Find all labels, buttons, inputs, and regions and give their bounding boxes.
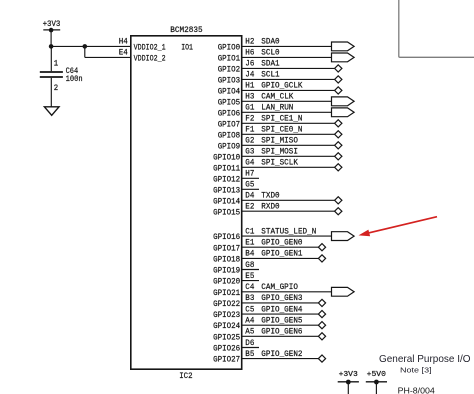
svg-text:A4: A4 — [245, 316, 254, 326]
svg-text:GPIO22: GPIO22 — [213, 299, 240, 309]
svg-text:GPIO3: GPIO3 — [218, 75, 241, 85]
svg-text:GPIO_GEN1: GPIO_GEN1 — [261, 249, 302, 259]
svg-text:VDDIO2_2: VDDIO2_2 — [134, 54, 166, 64]
svg-text:GPIO18: GPIO18 — [213, 254, 240, 264]
svg-text:SCL1: SCL1 — [261, 70, 279, 80]
svg-text:GPIO_GEN6: GPIO_GEN6 — [261, 327, 302, 337]
svg-text:G3: G3 — [245, 147, 254, 157]
svg-text:H4: H4 — [119, 37, 128, 47]
svg-text:GPIO_GEN2: GPIO_GEN2 — [261, 349, 302, 359]
svg-text:C5: C5 — [245, 304, 254, 314]
svg-text:D4: D4 — [245, 191, 254, 201]
svg-text:H7: H7 — [245, 169, 254, 179]
svg-text:D6: D6 — [245, 338, 254, 348]
svg-text:GPIO26: GPIO26 — [213, 344, 240, 354]
svg-text:GPIO_GEN5: GPIO_GEN5 — [261, 316, 302, 326]
svg-text:CAM_CLK: CAM_CLK — [261, 92, 294, 102]
svg-text:H3: H3 — [245, 92, 254, 102]
svg-text:E5: E5 — [245, 271, 254, 281]
svg-text:E1: E1 — [245, 238, 254, 248]
svg-text:G1: G1 — [245, 103, 254, 113]
svg-text:SPI_MOSI: SPI_MOSI — [261, 147, 298, 157]
svg-text:TXD0: TXD0 — [261, 191, 279, 201]
svg-text:SDA1: SDA1 — [261, 59, 279, 69]
svg-text:GPIO8: GPIO8 — [218, 130, 241, 140]
svg-text:GPIO20: GPIO20 — [213, 277, 240, 287]
svg-text:F2: F2 — [245, 114, 254, 124]
svg-text:RXD0: RXD0 — [261, 202, 279, 212]
svg-text:GPIO25: GPIO25 — [213, 332, 240, 342]
svg-text:GPIO4: GPIO4 — [218, 86, 241, 96]
svg-text:B3: B3 — [245, 293, 254, 303]
svg-text:GPIO1: GPIO1 — [218, 53, 241, 63]
svg-text:F1: F1 — [245, 125, 254, 135]
svg-text:Note [3]: Note [3] — [400, 365, 432, 374]
svg-text:+3V3: +3V3 — [43, 19, 61, 29]
svg-text:GPIO21: GPIO21 — [213, 288, 240, 298]
svg-text:GPIO_GCLK: GPIO_GCLK — [261, 81, 303, 91]
svg-text:H6: H6 — [245, 48, 254, 58]
svg-text:GPIO27: GPIO27 — [213, 355, 240, 365]
svg-text:GPIO17: GPIO17 — [213, 243, 240, 253]
svg-text:GPIO_GEN3: GPIO_GEN3 — [261, 293, 302, 303]
svg-text:GPIO12: GPIO12 — [213, 174, 240, 184]
svg-text:SCL0: SCL0 — [261, 48, 279, 58]
svg-text:+5V0: +5V0 — [367, 371, 386, 379]
svg-text:GPIO16: GPIO16 — [213, 232, 240, 242]
svg-text:1: 1 — [54, 59, 58, 69]
svg-text:G8: G8 — [245, 260, 254, 270]
svg-text:G5: G5 — [245, 180, 254, 190]
svg-text:VDDIO2_1: VDDIO2_1 — [134, 43, 166, 53]
svg-text:J4: J4 — [245, 70, 254, 80]
svg-text:H2: H2 — [245, 37, 254, 47]
svg-text:GPIO7: GPIO7 — [218, 119, 241, 129]
svg-text:GPIO6: GPIO6 — [218, 108, 241, 118]
svg-text:SDA0: SDA0 — [261, 37, 279, 47]
svg-text:General Purpose I/O: General Purpose I/O — [379, 354, 471, 365]
svg-text:CAM_GPIO: CAM_GPIO — [261, 282, 298, 292]
svg-text:SPI_CE0_N: SPI_CE0_N — [261, 125, 302, 135]
svg-text:SPI_SCLK: SPI_SCLK — [261, 158, 298, 168]
svg-text:B4: B4 — [245, 249, 254, 259]
svg-text:GPIO5: GPIO5 — [218, 97, 241, 107]
svg-text:BCM2835: BCM2835 — [170, 25, 202, 35]
svg-text:A5: A5 — [245, 327, 254, 337]
svg-text:B5: B5 — [245, 349, 254, 359]
svg-text:100n: 100n — [66, 74, 83, 84]
svg-text:GPIO14: GPIO14 — [213, 196, 240, 206]
svg-text:GPIO13: GPIO13 — [213, 185, 240, 195]
svg-text:+3V3: +3V3 — [339, 371, 358, 379]
svg-text:IC2: IC2 — [179, 371, 192, 381]
svg-text:GPIO_GEN4: GPIO_GEN4 — [261, 304, 302, 314]
svg-text:E4: E4 — [119, 48, 128, 58]
svg-text:C4: C4 — [245, 282, 254, 292]
svg-text:SPI_CE1_N: SPI_CE1_N — [261, 114, 302, 124]
svg-text:GPIO24: GPIO24 — [213, 321, 240, 331]
svg-text:GPIO11: GPIO11 — [213, 163, 240, 173]
svg-text:J6: J6 — [245, 59, 254, 69]
svg-text:GPIO10: GPIO10 — [213, 152, 240, 162]
svg-text:GPIO2: GPIO2 — [218, 64, 241, 74]
svg-text:LAN_RUN: LAN_RUN — [261, 103, 293, 113]
svg-text:STATUS_LED_N: STATUS_LED_N — [261, 226, 316, 236]
svg-text:GPIO_GEN0: GPIO_GEN0 — [261, 238, 302, 248]
svg-text:C1: C1 — [245, 226, 254, 236]
svg-text:GPIO0: GPIO0 — [218, 42, 241, 52]
svg-text:GPIO23: GPIO23 — [213, 310, 240, 320]
svg-text:GPIO15: GPIO15 — [213, 207, 240, 217]
svg-text:GPIO19: GPIO19 — [213, 266, 240, 276]
svg-text:2: 2 — [54, 83, 58, 93]
svg-text:IO1: IO1 — [181, 43, 193, 53]
svg-text:G2: G2 — [245, 136, 254, 146]
svg-text:GPIO9: GPIO9 — [218, 141, 241, 151]
svg-text:SPI_MISO: SPI_MISO — [261, 136, 298, 146]
svg-text:PH-8/004: PH-8/004 — [398, 385, 435, 394]
svg-text:H1: H1 — [245, 81, 254, 91]
svg-text:E2: E2 — [245, 202, 254, 212]
svg-text:G4: G4 — [245, 158, 254, 168]
